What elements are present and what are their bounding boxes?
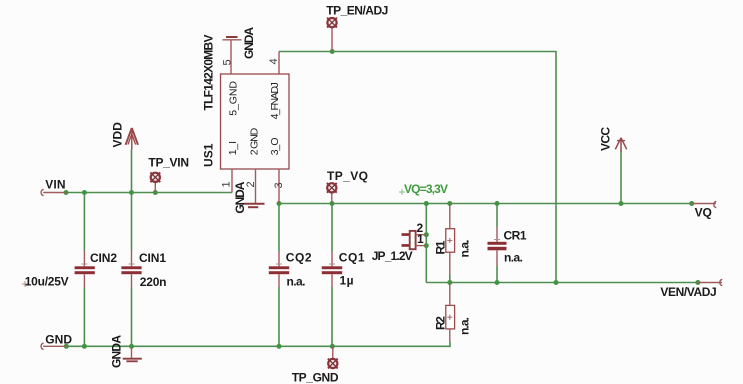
junction CR1 top (495, 201, 500, 206)
wire CQ1 branch upper (331, 204, 333, 252)
svg-text:VCC: VCC (599, 127, 613, 151)
pin connector VQ (692, 201, 717, 207)
junction VCC (619, 201, 624, 206)
wire CQ2 branch upper (278, 204, 280, 252)
junction CIN2 bottom (82, 344, 87, 349)
svg-text:VQ=3,3V: VQ=3,3V (404, 182, 448, 196)
wire CR1 lower (496, 266, 498, 283)
pin connector VIN (41, 189, 66, 195)
svg-text:VEN/VADJ: VEN/VADJ (660, 285, 716, 299)
junction CR1 bottom (495, 280, 500, 285)
svg-text:CIN2: CIN2 (90, 251, 117, 265)
wire GND net horizontal (66, 342, 450, 347)
power VDD arrow (126, 128, 138, 150)
svg-text:CR1: CR1 (504, 229, 527, 243)
svg-text:GNDA: GNDA (242, 27, 256, 59)
wire VDD branch (131, 150, 133, 193)
svg-text:R1: R1 (434, 240, 448, 254)
svg-text:TP_EN/ADJ: TP_EN/ADJ (326, 4, 388, 18)
svg-text:1: 1 (221, 181, 233, 187)
junction VIN-pin (64, 190, 69, 195)
svg-text:3: 3 (273, 182, 285, 188)
node VQ=3,3V net label (399, 182, 448, 196)
pin 4 stub (278, 52, 280, 75)
junction GND-pin (64, 344, 69, 349)
junction TP_VIN (153, 190, 158, 195)
svg-text:CQ2: CQ2 (286, 251, 312, 265)
svg-text:VIN: VIN (45, 178, 65, 192)
junction jumper pin2 (424, 232, 429, 237)
pin connector VEN/VADJ (698, 279, 722, 285)
svg-text:GNDA: GNDA (233, 181, 247, 213)
pin 5 stub (230, 40, 232, 74)
wire CIN2 branch lower (83, 288, 85, 347)
svg-text:CQ1: CQ1 (339, 251, 365, 265)
op-amp U1 body (IC US1 TLF142X0MBV) (221, 74, 290, 169)
wire jumper branch vertical (425, 204, 427, 283)
wire R1 lower stub net (449, 275, 451, 283)
svg-text:TP_VQ: TP_VQ (327, 169, 368, 183)
jumper JP_1.2V (402, 231, 427, 249)
svg-text:1: 1 (417, 232, 424, 246)
svg-text:2 GND: 2 GND (249, 127, 261, 155)
pin 3 stub (278, 169, 280, 204)
svg-text:US1: US1 (202, 143, 216, 167)
svg-text:n.a.: n.a. (287, 275, 306, 289)
wire VEN/VADJ net horizontal (426, 282, 698, 284)
svg-text:CIN1: CIN1 (139, 251, 166, 265)
wire VQ net horizontal (279, 203, 692, 205)
resistor R2 (446, 283, 455, 342)
junction VEN/VADJ pin end (695, 280, 700, 285)
capacitor CR1 (488, 227, 507, 266)
wire CIN1 branch upper (131, 193, 133, 251)
pin connector GND (41, 343, 66, 349)
wire CIN1 branch lower (131, 288, 133, 347)
wire VIN net horizontal (66, 192, 232, 194)
capacitor CIN1 (121, 251, 141, 288)
pin 1 stub (231, 169, 233, 193)
junction TP_VQ/CQ1 (330, 201, 335, 206)
testpoint TP_EN/ADJ (327, 18, 337, 52)
svg-text:5: 5 (221, 59, 233, 65)
svg-text:n.a.: n.a. (458, 240, 472, 258)
junction VQ pin end (689, 201, 694, 206)
wire CR1 upper (496, 204, 498, 228)
capacitor CIN2 (75, 251, 95, 288)
svg-text:JP_1.2V: JP_1.2V (372, 249, 413, 263)
svg-text:TLF142X0MBV: TLF142X0MBV (202, 35, 216, 111)
svg-text:GND: GND (45, 332, 72, 346)
wire CIN2 branch upper (83, 193, 85, 251)
svg-text:VQ: VQ (695, 205, 712, 219)
testpoint TP_VQ (327, 183, 337, 204)
pin 2 stub (255, 169, 257, 203)
junction CQ1/TP_GND bottom (330, 344, 335, 349)
svg-text:GNDA: GNDA (110, 335, 124, 368)
svg-text:TP_VIN: TP_VIN (148, 156, 189, 170)
svg-text:5_GND: 5_GND (228, 81, 240, 116)
junction TP_EN/ADJ (330, 49, 335, 54)
capacitor CQ1 (322, 252, 342, 288)
wire CQ2 branch lower (278, 287, 280, 346)
junction jumper branch top (424, 201, 429, 206)
svg-text:VDD: VDD (111, 122, 125, 148)
resistor R1 (446, 204, 455, 275)
junction R1 bottom / R2 top (447, 280, 452, 285)
wire CQ1 branch lower (331, 287, 333, 346)
testpoint TP_VIN (150, 172, 160, 192)
capacitor CQ2 (269, 252, 289, 288)
junction jumper pin1 (424, 243, 429, 248)
junction CIN1/GNDA bottom (129, 344, 134, 349)
junction pin3/CQ2 (277, 201, 282, 206)
svg-text:220n: 220n (140, 275, 167, 289)
wire VCC branch (620, 151, 622, 204)
svg-text:n.a.: n.a. (504, 251, 523, 265)
svg-text:1_I: 1_I (227, 141, 239, 155)
junction R1 top (447, 201, 452, 206)
svg-text:4_FNADJ: 4_FNADJ (269, 82, 281, 119)
junction VDD/CIN1 (129, 190, 134, 195)
svg-text:TP_GND: TP_GND (292, 371, 339, 384)
svg-text:R2: R2 (434, 316, 448, 330)
wire EN/ADJ net from pin4 (279, 52, 556, 283)
svg-text:n.a.: n.a. (458, 317, 472, 335)
svg-text:10u/25V: 10u/25V (25, 275, 69, 289)
ground GNDA at pin 2 (244, 204, 265, 207)
junction CQ2 bottom (277, 344, 282, 349)
svg-text:4: 4 (268, 58, 280, 64)
svg-text:3_O: 3_O (269, 137, 281, 155)
ground GNDA at pin 5 (inverted) (223, 37, 242, 40)
value 10u/25V label (22, 275, 69, 289)
ground GNDA below CIN1 (123, 346, 142, 361)
junction CIN2 top (82, 190, 87, 195)
power VCC arrow (615, 138, 626, 152)
svg-text:1µ: 1µ (340, 274, 354, 288)
junction EN vertical bottom (554, 280, 559, 285)
testpoint TP_GND (328, 346, 338, 368)
